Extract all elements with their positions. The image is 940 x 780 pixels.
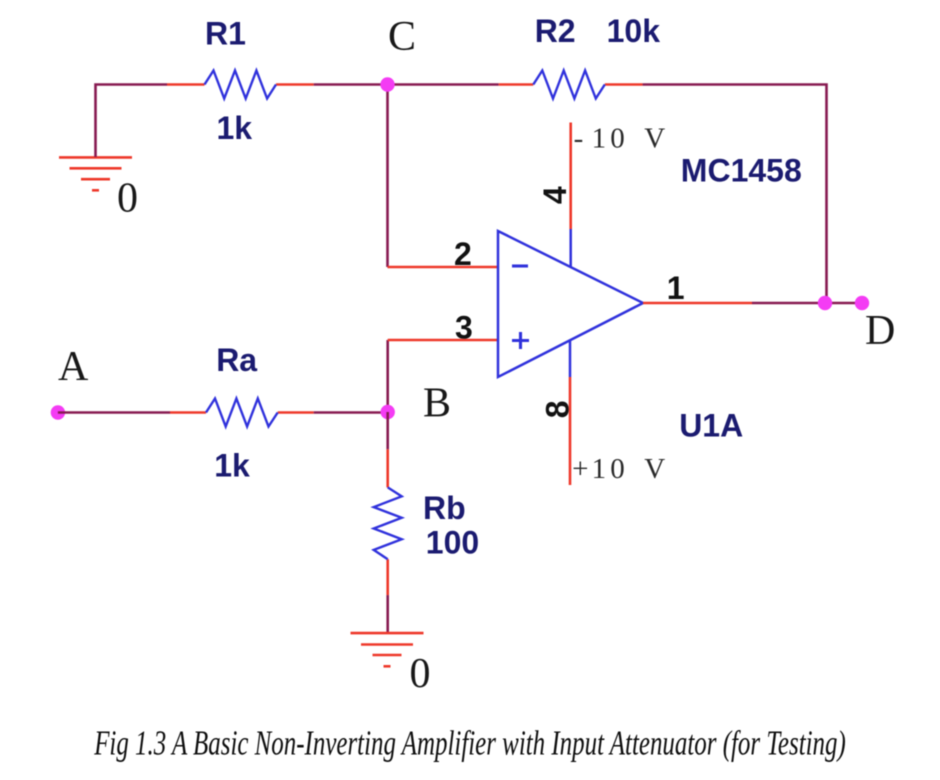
pin 4 stub blue: [569, 229, 572, 267]
wire pin 2 (red): [388, 266, 499, 269]
op-amp plus sign: [512, 339, 529, 342]
resistor R1 leads: [167, 83, 205, 86]
wire Rb to ground: [386, 595, 389, 632]
svg-text:-10V: -10V: [574, 122, 666, 154]
svg-text:1k: 1k: [214, 448, 250, 484]
resistor R1 zigzag: [205, 71, 277, 99]
node C dot: [380, 77, 394, 91]
svg-text:B: B: [423, 381, 451, 427]
pin 8 stub blue: [569, 341, 572, 378]
svg-text:+10V: +10V: [572, 453, 665, 485]
svg-text:Rb: Rb: [423, 490, 466, 526]
output pin 1 wire red: [643, 302, 752, 305]
svg-text:D: D: [865, 308, 895, 354]
wire node B down to Rb: [386, 412, 389, 449]
wire node C to R2: [388, 83, 499, 86]
svg-text:4: 4: [537, 186, 573, 204]
wire R1 to node C: [314, 83, 388, 86]
pin 8 wire red: [569, 377, 572, 485]
ground GND2 bottom: [351, 633, 424, 666]
op-amp U1A triangle: [498, 231, 643, 377]
svg-text:R2: R2: [535, 13, 576, 49]
resistor Rb leads: [386, 449, 389, 487]
resistor Ra leads: [170, 411, 206, 414]
svg-text:3: 3: [455, 310, 473, 346]
resistor Ra zigzag: [206, 399, 278, 427]
svg-text:100: 100: [426, 525, 479, 561]
svg-text:C: C: [388, 14, 416, 60]
wire output to node D (dark): [752, 302, 827, 305]
node A dot: [51, 405, 65, 419]
ground GND1 top-left: [59, 157, 132, 190]
svg-text:1: 1: [667, 270, 685, 306]
wire pin 3 (red): [388, 339, 498, 342]
pin 4 wire red: [569, 123, 572, 230]
wire ground1 to R1: [96, 85, 168, 158]
wire node C down to pin 2: [386, 85, 389, 268]
svg-text:0: 0: [410, 651, 431, 697]
resistor Rb zigzag (vertical): [374, 487, 402, 559]
svg-text:1k: 1k: [217, 110, 253, 146]
wire node A to Ra: [58, 411, 170, 414]
wire R2 to right corner down to output: [643, 85, 862, 304]
svg-text:Fig 1.3 A Basic Non-Inverting: Fig 1.3 A Basic Non-Inverting Amplifier …: [93, 723, 845, 762]
svg-text:2: 2: [454, 236, 472, 272]
svg-text:8: 8: [539, 401, 575, 419]
svg-text:MC1458: MC1458: [681, 153, 802, 189]
resistor R2 leads: [499, 83, 534, 86]
wire node B up to pin 3: [386, 340, 389, 412]
svg-text:A: A: [58, 344, 89, 390]
resistor R2 zigzag: [533, 71, 605, 99]
svg-text:0: 0: [117, 176, 138, 222]
wire Ra to node B: [314, 411, 388, 414]
svg-text:10k: 10k: [607, 13, 661, 49]
node dot at output junction: [818, 296, 832, 310]
svg-text:R1: R1: [205, 16, 246, 52]
node dot D terminal: [855, 296, 869, 310]
svg-text:Ra: Ra: [216, 342, 257, 378]
node B dot: [381, 405, 395, 419]
op-amp minus sign: [512, 264, 528, 267]
svg-text:U1A: U1A: [679, 407, 743, 443]
